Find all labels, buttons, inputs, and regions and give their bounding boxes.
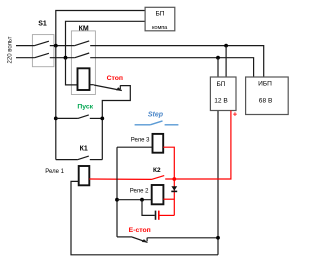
node relay common: [115, 198, 119, 202]
capacitor C1: [156, 211, 159, 220]
wire Реле 1 to minus bus: [71, 181, 218, 254]
switch Step wire right (blue): [165, 124, 179, 126]
node L2 junction: [64, 56, 68, 60]
wire KM coil neutral: [66, 58, 78, 85]
switch Step blade (blue): [150, 121, 162, 125]
wire capacitor to diode bus (red): [159, 214, 175, 216]
wire Стоп to start branch: [102, 86, 130, 160]
wire to БП компа line 1: [56, 11, 145, 46]
pushbutton Пуск out wire: [90, 117, 103, 119]
wire Реле 3 to plus tap (red): [163, 147, 174, 179]
wire control bus down left: [55, 46, 57, 160]
svg-text:Стоп: Стоп: [107, 75, 123, 82]
wire L2 to supplies: [90, 58, 253, 77]
wire L1 to supplies: [90, 46, 264, 77]
wire common to Реле 2: [117, 199, 152, 201]
svg-text:220 вольт: 220 вольт: [8, 36, 14, 63]
wire 12V minus drop: [217, 111, 219, 255]
node Пуск left: [54, 117, 58, 121]
relay contact K2 blade (red): [152, 176, 165, 180]
svg-text:БП: БП: [155, 10, 164, 17]
svg-text:Реле 1: Реле 1: [45, 169, 64, 175]
wire L2 lead-in: [16, 57, 35, 59]
svg-text:Реле 2: Реле 2: [130, 188, 149, 194]
pushbutton Пуск wire: [56, 117, 78, 119]
node 12V plus tap (red): [172, 177, 176, 181]
svg-text:К2: К2: [153, 167, 161, 174]
pushbutton Стоп blade: [94, 85, 122, 91]
svg-text:компа: компа: [152, 25, 168, 31]
wire Реле 2 to diode bus (red): [163, 198, 174, 200]
node Пуск right: [100, 117, 104, 121]
wire S1 to KM contact 1: [50, 45, 75, 47]
coil Реле 2: [152, 185, 164, 204]
wire capacitor branch: [142, 200, 155, 216]
coil Реле 3: [153, 134, 164, 153]
wire Реле 3 left lead: [117, 146, 153, 148]
box ИБП: [246, 77, 289, 115]
contactor KM contact 2 blade: [75, 53, 89, 58]
node L1 junction: [54, 44, 58, 48]
pushbutton Е-стоп blade: [132, 237, 148, 242]
svg-text:КМ: КМ: [79, 25, 89, 32]
box БП компа: [145, 7, 175, 31]
switch S1 pole 2 blade: [35, 53, 49, 57]
svg-text:ИБП: ИБП: [258, 81, 272, 88]
wire to Е-стоп: [117, 236, 132, 238]
relay contact K1 blade: [78, 156, 89, 160]
svg-text:Е-стоп: Е-стоп: [129, 227, 151, 234]
relay contact K1 wire: [56, 159, 78, 161]
svg-text:Реле 3: Реле 3: [131, 138, 150, 144]
diode VD1: [171, 186, 177, 191]
node L1-БП tap: [224, 44, 228, 48]
pushbutton Стоп contact tick: [119, 85, 121, 89]
svg-text:S1: S1: [38, 21, 47, 28]
wire Е-стоп to minus bus: [147, 237, 218, 239]
wire relay common drop: [116, 147, 118, 237]
pushbutton Е-стоп contact tick: [146, 238, 148, 242]
switch S1 pole 1 blade: [35, 41, 49, 45]
svg-text:12 В: 12 В: [214, 97, 228, 104]
contactor KM contact 1 blade: [75, 41, 89, 46]
svg-text:БП: БП: [216, 81, 225, 88]
contactor box KM: [71, 31, 95, 95]
svg-text:Пуск: Пуск: [77, 103, 93, 110]
pushbutton Стоп arrowhead: [116, 87, 122, 90]
wire K2 to Реле 1 coil (red): [89, 178, 151, 180]
node capacitor branch: [140, 198, 144, 202]
switch box S1: [32, 35, 54, 67]
wire S1 to KM contact 2: [50, 57, 75, 59]
node minus bus: [216, 236, 220, 240]
coil Реле 1: [79, 166, 90, 185]
pushbutton Е-стоп arrowhead: [142, 239, 148, 242]
svg-text:68 В: 68 В: [259, 97, 273, 104]
node L2-БП tap: [216, 56, 220, 60]
wire 12V plus rail (red): [165, 111, 231, 180]
svg-text:+: +: [233, 110, 238, 119]
wire tap to БП 12В: [217, 58, 219, 77]
wire diode branch (red): [173, 179, 175, 215]
coil KM: [78, 68, 90, 90]
wire L1 lead-in: [16, 45, 35, 47]
svg-text:Step: Step: [148, 111, 164, 118]
svg-text:К1: К1: [80, 146, 88, 153]
switch Step wire left (blue): [135, 124, 151, 126]
wire tap to БП 12В: [225, 46, 227, 77]
box БП 12В: [210, 77, 236, 111]
pushbutton Пуск blade: [78, 115, 89, 119]
relay contact K1 out wire: [90, 159, 103, 161]
wire to БП компа line 2: [66, 21, 146, 57]
wire KM coil to Стоп: [90, 84, 94, 86]
